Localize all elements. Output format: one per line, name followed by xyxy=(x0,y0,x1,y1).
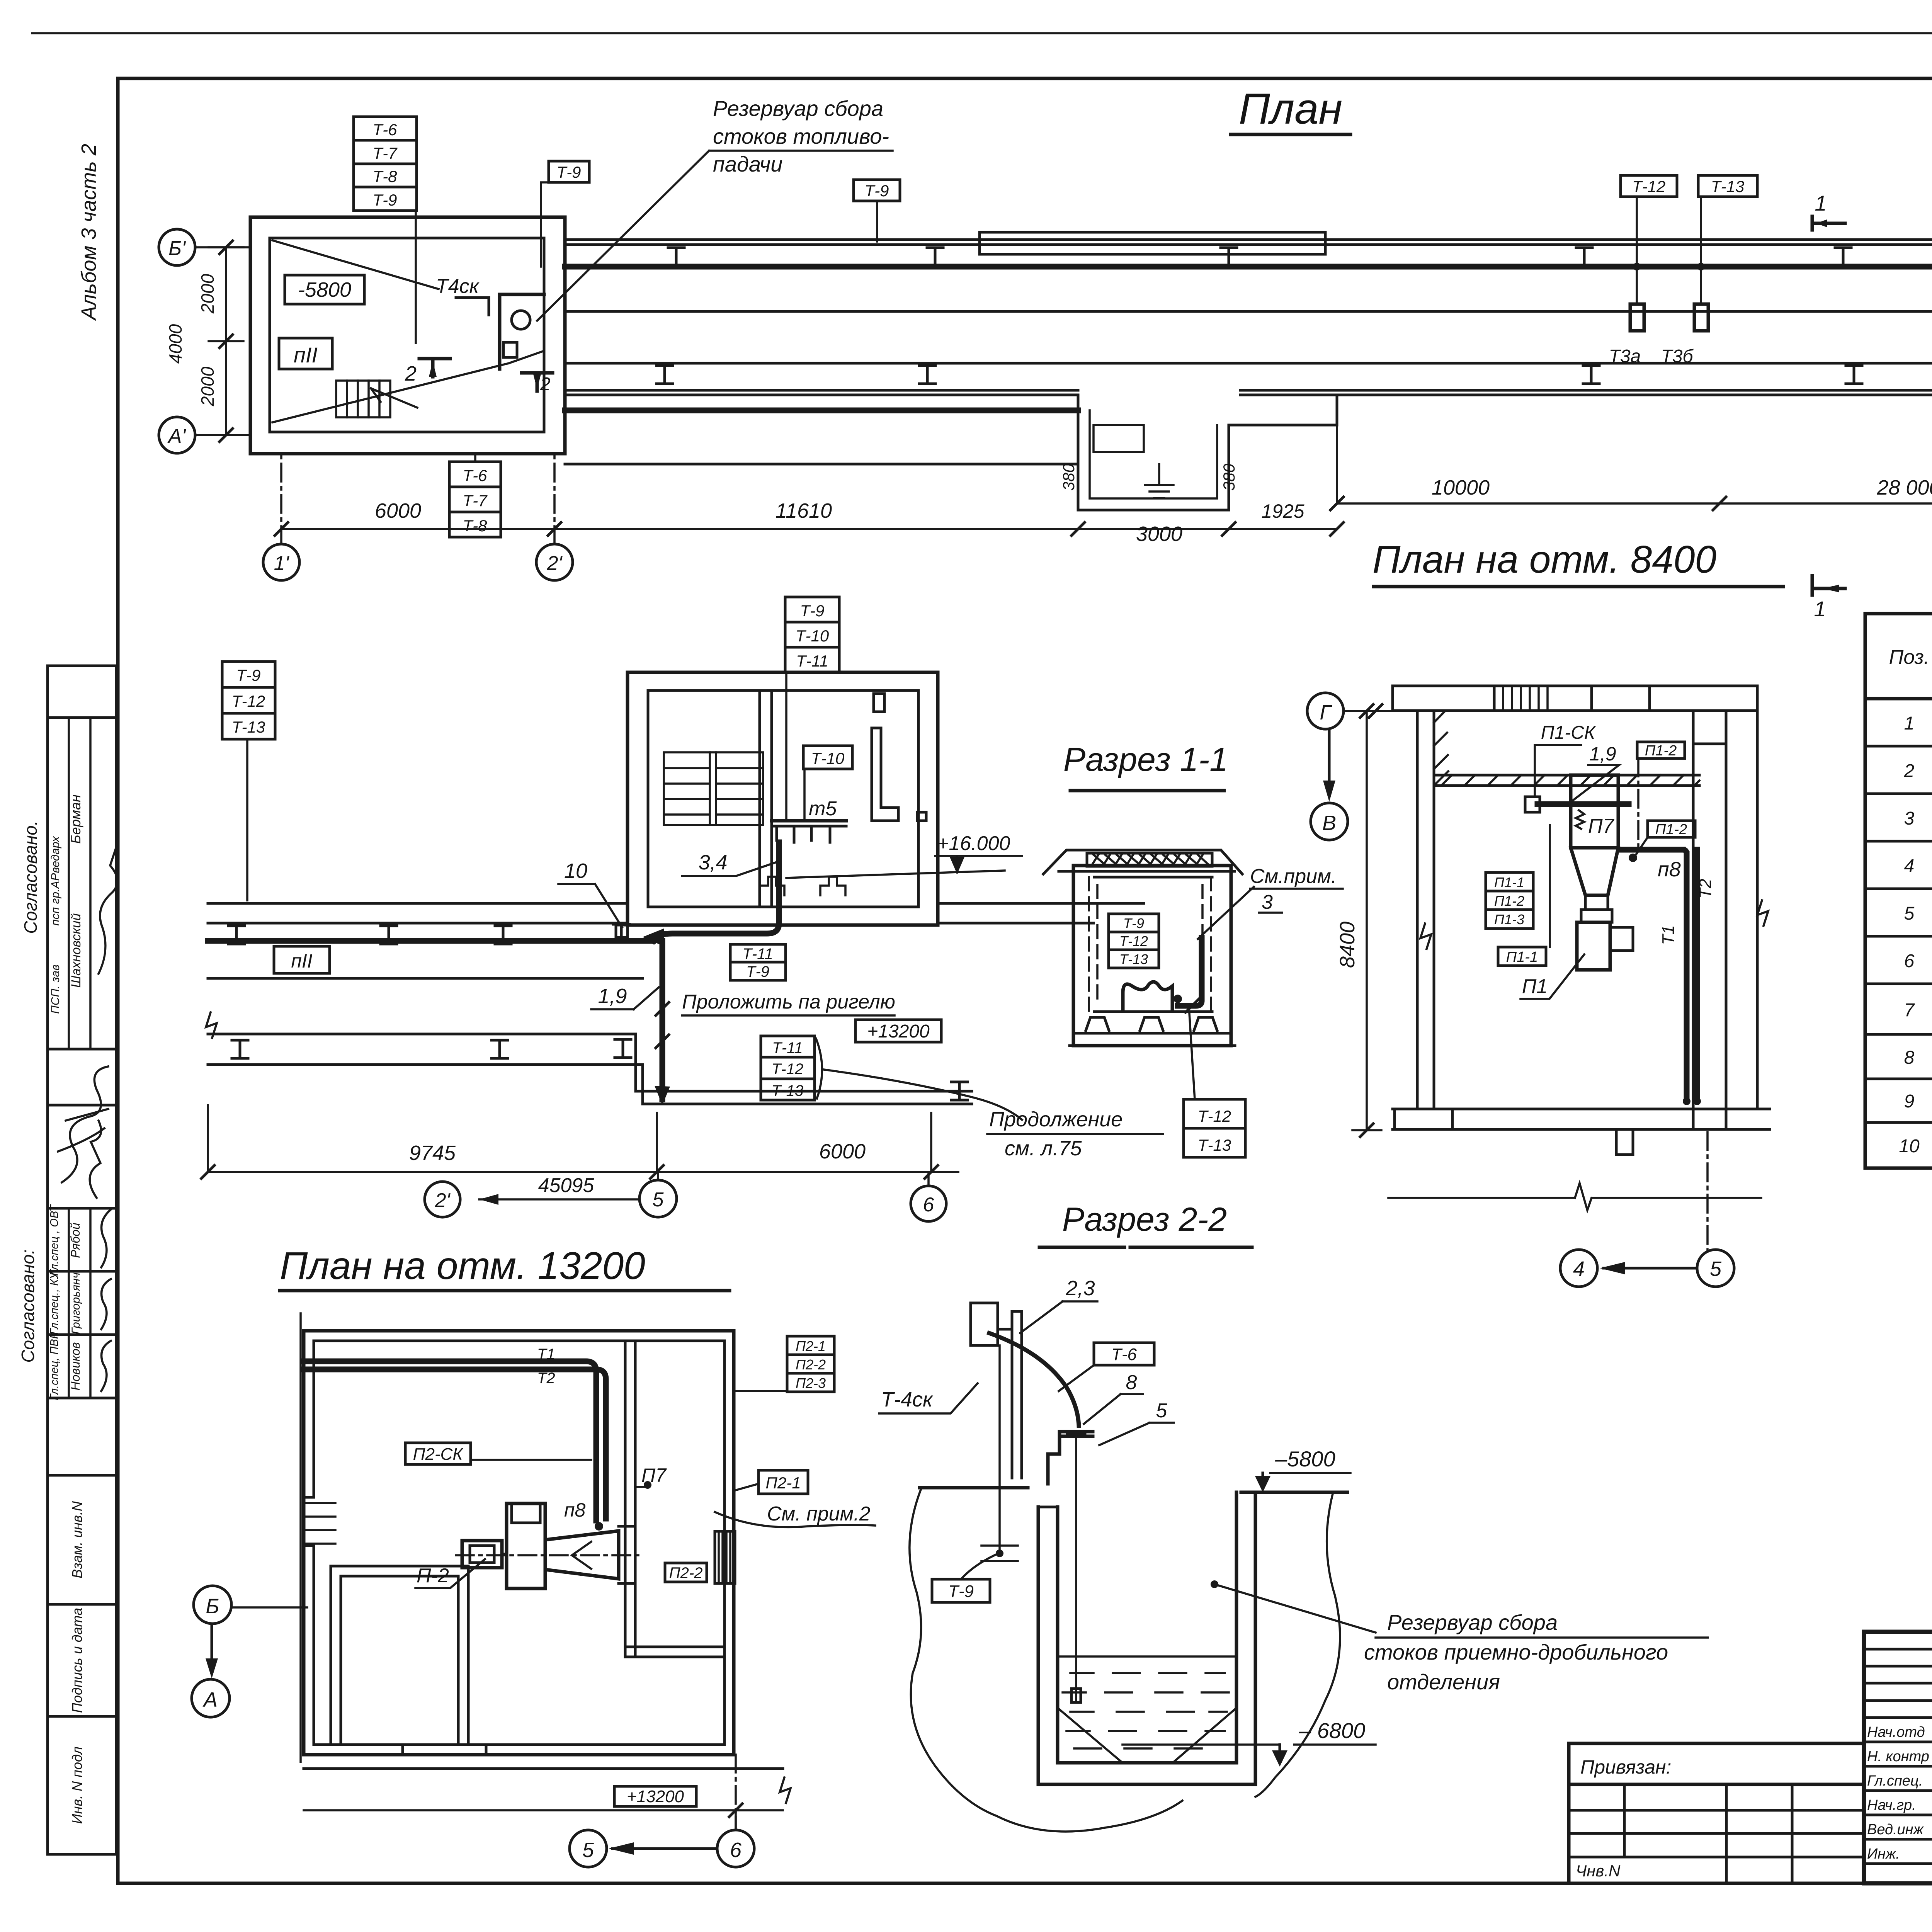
corridor lower lines xyxy=(565,362,1932,365)
horizontal rows left part xyxy=(1864,1649,1932,1864)
pit outer wall xyxy=(1038,1492,1255,1784)
bracket K2 xyxy=(1048,1432,1093,1484)
svg-text:см. л.75: см. л.75 xyxy=(1005,1137,1082,1160)
I-beams top run xyxy=(228,926,245,944)
dim 45095 xyxy=(479,1174,639,1205)
left wall opening caps xyxy=(304,1497,314,1546)
pit top caps xyxy=(1038,1506,1058,1509)
svg-text:Согласовано.: Согласовано. xyxy=(20,820,41,934)
label stack Т-12/Т-13 below xyxy=(1184,1099,1245,1157)
svg-text:5: 5 xyxy=(653,1189,664,1211)
text Продолжение см.л.75 xyxy=(987,1108,1163,1160)
bottom wall jambs xyxy=(403,1745,486,1755)
Т-9 cable down xyxy=(981,1345,1018,1561)
svg-text:Нач.отд: Нач.отд xyxy=(1867,1724,1925,1740)
axis circle 5 xyxy=(639,1172,677,1217)
svg-text:6000: 6000 xyxy=(819,1140,866,1163)
thick cable in section xyxy=(1178,938,1202,1006)
signature scribbles xyxy=(99,842,118,974)
svg-text:отделения: отделения xyxy=(1387,1670,1500,1694)
ПК box 10 xyxy=(616,925,628,937)
reservoir note text xyxy=(537,96,893,321)
inner wall lines xyxy=(314,1341,724,1745)
label См.прим. 3 xyxy=(1198,865,1343,939)
svg-text:7: 7 xyxy=(1904,1000,1915,1020)
svg-text:10000: 10000 xyxy=(1432,476,1490,499)
ground symbol xyxy=(1145,464,1173,498)
svg-text:Чнв.N: Чнв.N xyxy=(1576,1862,1621,1880)
svg-text:– 6800: – 6800 xyxy=(1299,1718,1365,1743)
svg-text:Т-12: Т-12 xyxy=(1119,933,1148,949)
svg-text:Привязан:: Привязан: xyxy=(1580,1756,1671,1778)
svg-text:3: 3 xyxy=(1904,808,1915,829)
text Проложить по ригелю xyxy=(682,991,895,1015)
label stack Т-6..Т-9 top xyxy=(354,117,417,211)
label box Т-6 xyxy=(1059,1343,1154,1391)
axis circle А' xyxy=(159,417,250,453)
right wall xyxy=(1693,711,1757,1129)
room inner wall xyxy=(270,238,544,432)
svg-text:П7: П7 xyxy=(641,1464,667,1486)
label stack Т-11/Т-9 xyxy=(730,944,786,980)
svg-text:стоков топливо-: стоков топливо- xyxy=(713,124,889,148)
corridor top band double line xyxy=(565,240,1932,245)
svg-text:Т-10: Т-10 xyxy=(796,627,829,645)
vent box on beam xyxy=(1494,686,1650,711)
svg-text:–5800: –5800 xyxy=(1275,1447,1335,1471)
label 2,3 xyxy=(1020,1277,1097,1333)
svg-text:Т-9: Т-9 xyxy=(1123,915,1144,931)
svg-text:Т2: Т2 xyxy=(1696,879,1715,898)
svg-text:Т-12: Т-12 xyxy=(1198,1107,1231,1125)
inner partition vertical xyxy=(625,1341,635,1657)
svg-text:П1-2: П1-2 xyxy=(1494,893,1524,909)
T4ck device xyxy=(456,294,544,369)
svg-text:Т1: Т1 xyxy=(537,1346,555,1363)
svg-text:См.прим.: См.прим. xyxy=(1250,865,1337,888)
svg-text:П2-1: П2-1 xyxy=(765,1474,801,1492)
svg-text:П2-2: П2-2 xyxy=(796,1357,826,1372)
svg-text:П2-1: П2-1 xyxy=(796,1338,826,1354)
steps at opening xyxy=(305,1503,335,1544)
left plinth xyxy=(1395,1109,1452,1129)
axis circle Б xyxy=(194,1586,307,1624)
svg-text:п8: п8 xyxy=(1658,858,1681,881)
svg-text:4: 4 xyxy=(1904,856,1915,876)
svg-text:Т-6: Т-6 xyxy=(373,121,398,139)
svg-text:т5: т5 xyxy=(809,798,837,820)
left break zigzag xyxy=(206,1012,217,1038)
bottom dim line xyxy=(275,499,1344,546)
svg-text:4: 4 xyxy=(1573,1257,1585,1281)
device Т3б xyxy=(1694,304,1708,331)
label box +13200 xyxy=(614,1786,696,1806)
svg-text:П1-1: П1-1 xyxy=(1506,949,1538,965)
pit bottom funnel lines xyxy=(1058,1708,1236,1763)
svg-text:+16.000: +16.000 xyxy=(937,832,1010,855)
svg-text:+13200: +13200 xyxy=(867,1021,930,1042)
label box Т-10 xyxy=(803,746,852,821)
pedestal xyxy=(1616,1129,1633,1155)
svg-text:Т-13: Т-13 xyxy=(1119,951,1148,967)
axis circle Б' xyxy=(159,229,250,265)
svg-text:Б: Б xyxy=(206,1595,219,1618)
heavy cables Т1 Т2 xyxy=(304,1361,596,1520)
svg-text:1,9: 1,9 xyxy=(598,985,627,1008)
label См.прим.2 xyxy=(715,1503,875,1527)
ground line left xyxy=(920,1486,1028,1490)
svg-text:Григорьянч: Григорьянч xyxy=(70,1272,82,1334)
wall break marks xyxy=(1420,923,1431,949)
upper dim line 10000/28000 xyxy=(1330,425,1932,510)
+16.000 level mark xyxy=(786,832,1022,878)
svg-text:П7: П7 xyxy=(1588,815,1615,837)
label stack Т-11/Т-12/Т-13 xyxy=(761,1036,1022,1120)
label П1-2 top xyxy=(1637,742,1685,848)
svg-text:Инв. N подл: Инв. N подл xyxy=(69,1747,85,1824)
svg-text:Н. контр: Н. контр xyxy=(1867,1748,1929,1765)
svg-text:5: 5 xyxy=(582,1838,594,1862)
svg-text:Новиков: Новиков xyxy=(68,1342,82,1390)
bottom break line xyxy=(1388,1183,1761,1210)
svg-text:4000: 4000 xyxy=(165,324,185,364)
cable end box xyxy=(1525,797,1540,812)
axis 6 dash line xyxy=(735,1755,737,1830)
cyclone П1 xyxy=(1571,775,1633,970)
thick cable drop from room xyxy=(653,842,779,941)
svg-text:Т-9: Т-9 xyxy=(948,1582,974,1601)
axis circle Г xyxy=(1307,693,1393,729)
level -5800 xyxy=(1255,1447,1350,1492)
axis circle А xyxy=(192,1679,230,1717)
П7 sensor dot xyxy=(635,1464,667,1489)
svg-text:Берман: Берман xyxy=(68,794,83,844)
roof hat xyxy=(1043,850,1242,874)
stairs xyxy=(664,752,763,825)
label box Т-9 xyxy=(932,1554,997,1602)
section mark 2 right xyxy=(522,373,553,395)
svg-text:Т-13: Т-13 xyxy=(772,1082,803,1099)
left axis line xyxy=(299,1313,302,1762)
svg-text:П1-1: П1-1 xyxy=(1494,874,1524,890)
arrow Г to В xyxy=(1323,729,1335,802)
svg-text:пII: пII xyxy=(291,950,312,972)
svg-text:Т-6: Т-6 xyxy=(1111,1345,1137,1364)
label 5 xyxy=(1099,1400,1174,1445)
svg-text:Т-7: Т-7 xyxy=(373,144,398,162)
svg-text:П1-СК: П1-СК xyxy=(1541,723,1596,743)
svg-text:Продолжение: Продолжение xyxy=(989,1108,1122,1131)
svg-text:Т-13: Т-13 xyxy=(1198,1136,1231,1154)
svg-text:П1-2: П1-2 xyxy=(1645,743,1677,759)
junction dots xyxy=(1633,263,1641,270)
I-beam columns lower run xyxy=(656,366,673,384)
middle shaft walls xyxy=(760,690,772,907)
soil wavy outline left xyxy=(910,1488,1182,1832)
outer xyxy=(1864,1632,1932,1883)
svg-text:Согласовано:: Согласовано: xyxy=(18,1249,38,1362)
svg-text:Т-9: Т-9 xyxy=(236,666,261,684)
device Т3а xyxy=(1630,304,1644,331)
svg-text:Проложить па ригелю: Проложить па ригелю xyxy=(682,991,895,1013)
probe rod xyxy=(1067,1434,1085,1702)
svg-text:Т-9: Т-9 xyxy=(800,602,825,620)
svg-text:1: 1 xyxy=(1904,713,1915,734)
svg-text:Инж.: Инж. xyxy=(1867,1846,1900,1862)
label stack П2-1/П2-2/П2-3 xyxy=(734,1336,834,1392)
svg-text:1,9: 1,9 xyxy=(1589,743,1616,765)
svg-text:Т-10: Т-10 xyxy=(811,749,845,767)
svg-text:9: 9 xyxy=(1904,1091,1915,1112)
svg-text:Т-9: Т-9 xyxy=(373,191,397,209)
svg-text:Гл.спец.: Гл.спец. xyxy=(1867,1773,1923,1789)
pit between corridors xyxy=(1078,395,1337,510)
svg-text:Рябой: Рябой xyxy=(68,1223,82,1258)
lower room lines xyxy=(636,1091,972,1104)
svg-text:П1-2: П1-2 xyxy=(1655,821,1687,838)
axis circle В xyxy=(1311,803,1348,840)
svg-text:Взам. инв.N: Взам. инв.N xyxy=(69,1501,85,1578)
corridor lower band xyxy=(208,1034,643,1065)
svg-text:стоков приемно-дробильного: стоков приемно-дробильного xyxy=(1364,1640,1668,1664)
top beam xyxy=(1393,686,1757,711)
label boxes Т-12 Т-13 xyxy=(1621,175,1677,197)
axis circle 5 xyxy=(570,1830,607,1867)
section mark 1 lower xyxy=(1812,576,1845,621)
label 3,4 xyxy=(682,851,778,876)
label 1,9 xyxy=(591,985,659,1009)
right room furniture xyxy=(872,694,926,821)
axis circle 2' xyxy=(425,1182,460,1217)
svg-text:П1: П1 xyxy=(1522,975,1548,998)
label box П2-СК xyxy=(405,1443,591,1464)
stairs in room xyxy=(336,381,417,417)
cable drop to lower room xyxy=(660,941,665,1099)
svg-text:380: 380 xyxy=(1060,463,1078,491)
level -6800 xyxy=(1122,1718,1376,1767)
axis circle 2' xyxy=(536,454,573,580)
label box ~5800 xyxy=(285,275,364,304)
svg-text:Т4ск: Т4ск xyxy=(436,275,480,298)
svg-text:Т-9: Т-9 xyxy=(746,963,769,980)
left column xyxy=(1417,711,1434,1109)
svg-text:Т-9: Т-9 xyxy=(865,182,889,200)
svg-text:1925: 1925 xyxy=(1261,500,1304,522)
svg-text:6: 6 xyxy=(923,1194,934,1216)
svg-text:П2-3: П2-3 xyxy=(796,1375,826,1391)
reservoir label text xyxy=(1211,1580,1708,1694)
svg-text:2': 2' xyxy=(547,552,563,575)
arrow 6 to 5 xyxy=(609,1842,717,1855)
floor xyxy=(1393,1109,1770,1129)
room outer wall xyxy=(250,217,565,454)
svg-text:10: 10 xyxy=(564,859,587,883)
svg-text:1: 1 xyxy=(1814,597,1826,621)
bathtub shape xyxy=(1123,982,1172,1011)
label box Т-9 (room) xyxy=(541,161,589,267)
svg-text:Альбом 3 часть 2: Альбом 3 часть 2 xyxy=(77,144,100,321)
label 1,9 xyxy=(1570,743,1619,803)
svg-text:Т-11: Т-11 xyxy=(772,1039,803,1056)
label П1 xyxy=(1520,954,1584,999)
label stack Т-9/Т-12/Т-13 inside xyxy=(1109,914,1159,968)
svg-text:Т-12: Т-12 xyxy=(1632,177,1665,196)
hatched slab band xyxy=(1087,853,1212,866)
stairwell room outer xyxy=(628,672,938,925)
svg-text:11610: 11610 xyxy=(776,499,832,522)
junction flare xyxy=(643,929,664,946)
svg-text:Разрез 2-2: Разрез 2-2 xyxy=(1062,1201,1227,1238)
svg-text:2: 2 xyxy=(540,374,551,395)
svg-text:Подпись и дата: Подпись и дата xyxy=(69,1608,85,1713)
inner partition horizontal xyxy=(625,1647,724,1657)
svg-text:+13200: +13200 xyxy=(627,1787,684,1806)
inner dashed walls xyxy=(1089,877,1211,1012)
feet xyxy=(1086,1017,1217,1031)
I-beam columns top run xyxy=(668,248,684,266)
section box outer xyxy=(1073,866,1231,1046)
Т5 shelf with hooks xyxy=(772,821,846,842)
bottom lines xyxy=(1070,1033,1235,1046)
inner rect xyxy=(1094,877,1212,1012)
svg-text:А: А xyxy=(202,1688,218,1711)
svg-text:3: 3 xyxy=(1262,891,1273,913)
label box ПII xyxy=(274,946,330,973)
label box ПII room xyxy=(279,338,332,369)
axis circle 5 xyxy=(1697,1250,1734,1287)
dim line 8400 xyxy=(1336,704,1381,1137)
svg-text:Т-12: Т-12 xyxy=(772,1061,803,1078)
svg-text:Т-4ск: Т-4ск xyxy=(881,1388,934,1411)
pit inner wall xyxy=(1058,1492,1236,1763)
svg-text:Т-6: Т-6 xyxy=(463,466,488,485)
svg-text:пcп гр.АРведарх: пcп гр.АРведарх xyxy=(49,836,62,925)
pump П-2 assembly xyxy=(456,1503,641,1588)
svg-text:П1-3: П1-3 xyxy=(1494,912,1524,927)
corridor line xyxy=(208,977,643,980)
svg-text:45095: 45095 xyxy=(538,1174,595,1197)
svg-text:П2-2: П2-2 xyxy=(669,1565,703,1582)
svg-text:Гл.спец., КУ: Гл.спец., КУ xyxy=(48,1271,61,1335)
label box П2-1 xyxy=(734,1470,808,1494)
water surface and dashes xyxy=(1058,1656,1236,1748)
svg-text:П-2: П-2 xyxy=(417,1565,449,1587)
label 8 xyxy=(1084,1371,1143,1424)
svg-text:Т3а: Т3а xyxy=(1609,346,1641,367)
arrow Б to А xyxy=(206,1624,218,1679)
svg-text:3000: 3000 xyxy=(1136,522,1182,546)
svg-text:План на отм. 13200: План на отм. 13200 xyxy=(280,1244,645,1287)
svg-text:Разрез 1-1: Разрез 1-1 xyxy=(1063,741,1228,778)
svg-text:Т-8: Т-8 xyxy=(463,517,488,535)
svg-text:Гл.спец , ОВТ: Гл.спец , ОВТ xyxy=(48,1204,61,1276)
heavy cable 1 xyxy=(1537,801,1629,807)
cable curve from box xyxy=(989,1333,1079,1426)
axis dash line to 5 xyxy=(1706,1132,1709,1250)
svg-text:Т-11: Т-11 xyxy=(742,946,773,963)
svg-text:А': А' xyxy=(167,425,187,447)
axis circle 6 xyxy=(911,1172,946,1221)
svg-text:2,3: 2,3 xyxy=(1065,1277,1095,1300)
svg-text:Гл.спец, ПВК: Гл.спец, ПВК xyxy=(48,1332,61,1400)
svg-text:8: 8 xyxy=(1904,1048,1915,1068)
svg-text:1': 1' xyxy=(274,552,290,575)
room diagonal lines xyxy=(272,240,544,422)
step down to lower room xyxy=(636,1034,643,1104)
svg-text:В: В xyxy=(1322,811,1336,835)
label box Т-9 mid corridor xyxy=(854,180,900,241)
rack column xyxy=(971,1303,1022,1478)
axis circle 4 xyxy=(1560,1250,1597,1287)
svg-text:ПСП. зав: ПСП. зав xyxy=(49,964,62,1014)
svg-text:Т1: Т1 xyxy=(1659,925,1678,945)
ledge lines below plan xyxy=(304,1767,783,1770)
svg-text:8400: 8400 xyxy=(1336,922,1359,968)
table grid xyxy=(1865,614,1932,1168)
svg-text:Т-11: Т-11 xyxy=(796,652,828,670)
svg-text:8: 8 xyxy=(1126,1371,1137,1394)
outer wall xyxy=(304,1331,734,1755)
svg-text:п8: п8 xyxy=(564,1499,586,1521)
label stack Т-9/Т-10/Т-11 xyxy=(785,597,839,821)
svg-text:2': 2' xyxy=(435,1189,451,1212)
svg-text:падачи: падачи xyxy=(713,152,782,176)
vertical dim line 4000/2000 xyxy=(165,241,243,442)
svg-text:-5800: -5800 xyxy=(298,278,351,301)
arrow 5 to 4 xyxy=(1600,1262,1697,1274)
svg-text:пII: пII xyxy=(294,343,318,367)
П7 spring sensor xyxy=(1576,810,1584,829)
svg-text:Т2: Т2 xyxy=(537,1370,555,1387)
svg-text:Г: Г xyxy=(1320,701,1332,724)
svg-text:Т3б: Т3б xyxy=(1661,346,1694,367)
svg-text:3,4: 3,4 xyxy=(698,851,727,874)
svg-text:Б': Б' xyxy=(168,237,186,260)
label stack П1-1/П1-2/П1-3 xyxy=(1486,872,1533,929)
ceiling hatched band xyxy=(1434,775,1699,786)
svg-text:План: План xyxy=(1239,85,1342,133)
svg-text:Нач.гр.: Нач.гр. xyxy=(1867,1797,1916,1813)
svg-text:6000: 6000 xyxy=(375,499,421,522)
dim line 9745/6000 xyxy=(201,1105,958,1179)
label box П2-2 xyxy=(665,1563,707,1582)
svg-text:1: 1 xyxy=(1815,191,1827,215)
label stack Т-9/Т-12/Т-13 left xyxy=(222,662,275,900)
svg-text:6: 6 xyxy=(730,1838,742,1862)
label 10 xyxy=(558,859,622,927)
label Т-4ск xyxy=(879,1383,978,1413)
label П1-СК xyxy=(1535,723,1596,797)
stairwell room inner xyxy=(648,690,918,907)
svg-text:2: 2 xyxy=(405,362,417,385)
svg-text:См. прим.2: См. прим.2 xyxy=(767,1503,871,1525)
section mark 1 upper xyxy=(1812,191,1845,230)
svg-text:Т-9: Т-9 xyxy=(557,163,581,181)
svg-text:2: 2 xyxy=(1904,761,1915,781)
svg-text:Т-13: Т-13 xyxy=(1711,177,1744,196)
svg-text:Т-8: Т-8 xyxy=(373,167,398,185)
label box +13200 xyxy=(855,1020,941,1042)
svg-text:10: 10 xyxy=(1899,1136,1920,1156)
dim line xyxy=(304,1809,783,1811)
svg-text:2000: 2000 xyxy=(197,366,218,406)
svg-text:2000: 2000 xyxy=(197,274,218,314)
svg-text:Т-13: Т-13 xyxy=(232,718,265,736)
corridor heavy cable xyxy=(208,938,653,944)
soil wavy outline right xyxy=(1255,1492,1340,1797)
svg-text:5: 5 xyxy=(1710,1257,1722,1281)
svg-text:Т-12: Т-12 xyxy=(232,692,265,710)
